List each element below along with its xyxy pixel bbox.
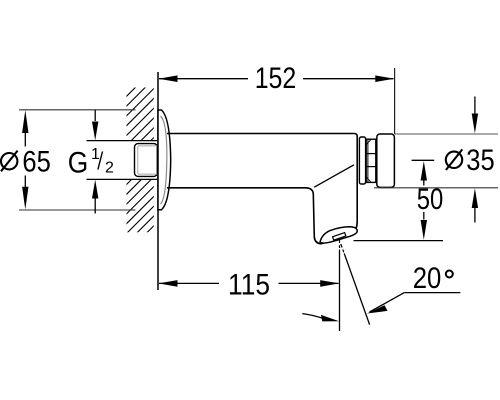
svg-text:1: 1: [91, 146, 100, 163]
svg-text:65: 65: [22, 145, 50, 178]
svg-text:152: 152: [255, 62, 297, 95]
svg-text:20: 20: [413, 262, 442, 295]
svg-text:35: 35: [466, 144, 494, 177]
svg-text:115: 115: [228, 269, 270, 302]
svg-text:2: 2: [105, 160, 114, 177]
svg-text:50: 50: [417, 183, 444, 216]
svg-text:G: G: [68, 147, 89, 180]
